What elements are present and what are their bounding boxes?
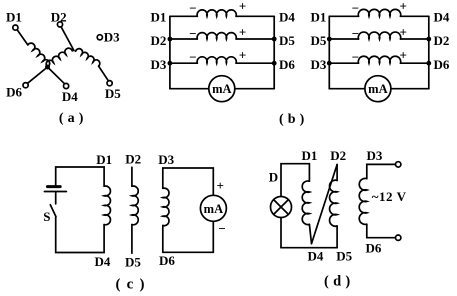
svg-text:+: + [239,0,246,14]
svg-text:−: − [352,49,359,64]
svg-text:D2: D2 [434,33,450,48]
svg-text:D6: D6 [434,57,450,72]
svg-text:D3: D3 [367,148,383,163]
svg-text:( a ): ( a ) [59,111,84,126]
svg-text:~12 V: ~12 V [372,189,407,204]
svg-text:+: + [239,24,246,39]
svg-text:D1: D1 [302,148,318,163]
svg-text:−: − [352,0,359,15]
svg-text:D6: D6 [6,84,22,99]
svg-text:D5: D5 [336,248,352,263]
svg-text:−: − [189,49,196,64]
svg-text:D: D [269,169,278,184]
svg-text:D6: D6 [159,253,175,268]
svg-text:D2: D2 [51,10,67,25]
svg-text:−: − [189,0,196,15]
svg-text:−: − [189,26,196,41]
svg-text:D4: D4 [95,254,111,269]
svg-text:D2: D2 [125,152,141,167]
svg-text:D2: D2 [330,148,346,163]
svg-text:D1: D1 [6,10,22,25]
svg-text:mA: mA [212,82,231,96]
svg-text:( d ): ( d ) [324,274,350,290]
svg-text:mA: mA [368,82,387,96]
svg-text:+: + [216,178,223,193]
svg-text:( c ): ( c ) [116,276,146,292]
svg-text:−: − [352,26,359,41]
svg-text:D1: D1 [311,9,327,24]
svg-text:D5: D5 [105,86,121,101]
svg-text:D3: D3 [104,29,120,44]
svg-text:D4: D4 [62,89,78,104]
svg-text:D2: D2 [151,33,167,48]
svg-text:+: + [399,0,406,14]
svg-text:D6: D6 [279,57,295,72]
svg-text:D4: D4 [279,9,295,24]
svg-text:D1: D1 [96,152,112,167]
svg-text:D5: D5 [279,33,295,48]
svg-text:D3: D3 [158,152,174,167]
svg-text:D5: D5 [311,33,327,48]
svg-text:( b ): ( b ) [279,112,305,127]
svg-text:+: + [399,47,406,62]
svg-text:D5: D5 [125,254,141,269]
svg-text:+: + [399,24,406,39]
svg-text:D4: D4 [308,248,324,263]
svg-text:D3: D3 [311,57,327,72]
svg-text:D1: D1 [151,9,167,24]
svg-text:D6: D6 [366,241,382,256]
svg-text:mA: mA [204,202,223,216]
svg-text:D4: D4 [434,9,450,24]
svg-text:+: + [239,47,246,62]
svg-text:−: − [218,221,225,236]
svg-text:D3: D3 [151,57,167,72]
svg-text:S: S [43,209,50,224]
